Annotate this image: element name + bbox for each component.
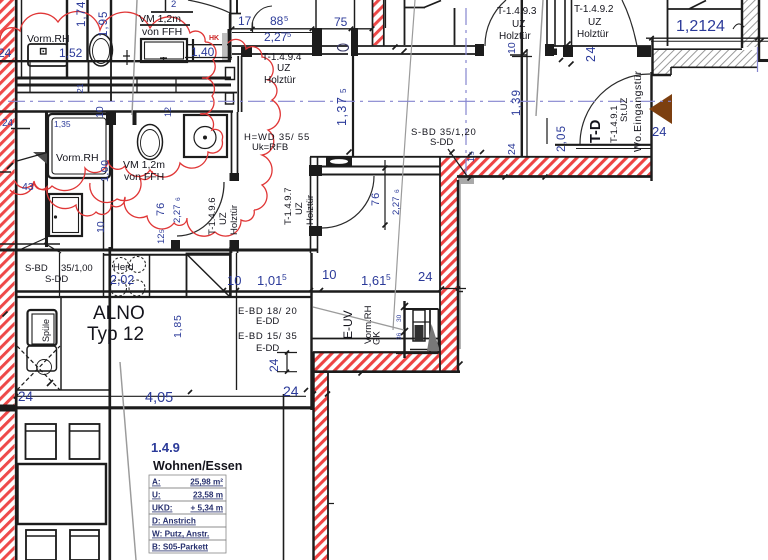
blue tick right <box>757 47 759 72</box>
niche line above washbasin <box>151 11 193 13</box>
wall line y55 left of x527 <box>510 54 527 56</box>
wall x230 kitchen right <box>229 247 231 297</box>
svg-text:24: 24 <box>283 383 299 399</box>
svg-text:T-1.4.9.4: T-1.4.9.4 <box>262 52 302 63</box>
door jamb block x637 <box>637 46 651 57</box>
svg-text:E-UV: E-UV <box>341 310 355 339</box>
pencil line E <box>536 0 543 116</box>
svg-text:24: 24 <box>0 46 12 60</box>
dim extension x527 <box>526 49 528 156</box>
wall corner block left <box>0 405 17 412</box>
svg-text:30: 30 <box>396 314 403 322</box>
squiggle after 1,2124 <box>733 24 744 29</box>
room 1,2124 wall x667 <box>667 0 669 46</box>
GK right edge <box>438 309 440 353</box>
svg-text:1,95: 1,95 <box>98 11 110 37</box>
duct line below shower <box>103 180 105 250</box>
svg-text:35/1,00: 35/1,00 <box>61 263 93 274</box>
dim extension x236 <box>236 253 238 390</box>
washbasin Vorm.RH top <box>28 44 67 66</box>
dim line 88-75 y28.8 <box>232 28 372 30</box>
svg-text:6: 6 <box>394 189 401 193</box>
entry wall line y148.5 <box>576 148 651 150</box>
wall x454 vertical <box>454 8 456 45</box>
existing gray hatched wall top right vertical <box>743 0 759 47</box>
dim line 1,40 lower edge <box>185 57 232 59</box>
svg-text:D: Anstrich: D: Anstrich <box>152 517 196 526</box>
svg-text:Uk=RFB: Uk=RFB <box>252 142 288 153</box>
wall x404 vertical <box>404 0 406 45</box>
svg-text:10: 10 <box>322 267 336 282</box>
door arc T-1.4.9.3 <box>485 0 506 46</box>
svg-text:ALNO: ALNO <box>93 303 145 324</box>
wall x193 right of washbasin niche <box>192 39 194 61</box>
counter edge x61 <box>60 297 62 390</box>
entry wall top line y144.8 <box>555 144 652 146</box>
washbasin VM room <box>141 39 187 62</box>
svg-text:S-DD: S-DD <box>430 137 453 148</box>
tick verticals in wall band area <box>29 62 31 93</box>
svg-text:E-BD 15/ 35: E-BD 15/ 35 <box>238 331 297 342</box>
svg-text:75: 75 <box>334 15 348 29</box>
dim ticks at red wall bottom <box>311 392 316 397</box>
revision cloud dip under Vorm.RH <box>90 171 152 203</box>
tick under washbasin <box>160 57 167 59</box>
blue axis horizontal <box>8 100 671 102</box>
dim extension x283 <box>283 394 285 560</box>
svg-text:10: 10 <box>95 221 107 233</box>
pencil line A <box>393 0 415 330</box>
svg-text:5: 5 <box>159 229 166 233</box>
svg-text:1,35: 1,35 <box>54 119 71 129</box>
svg-text:5: 5 <box>386 272 391 282</box>
hatched wall stub top corridor <box>373 0 384 45</box>
hatched new wall vertical center (x440) <box>440 157 457 371</box>
entry wall bottom black y176.5 <box>457 175 652 178</box>
stove burner circles <box>113 258 129 274</box>
svg-text:Holztür: Holztür <box>264 75 296 86</box>
chair top-right <box>70 424 100 459</box>
wall divider x87 <box>86 0 88 61</box>
diagonal tick corner 4,05 <box>47 380 53 386</box>
shower tray lower bath <box>48 114 110 178</box>
svg-text:23,58 m: 23,58 m <box>193 491 223 500</box>
svg-text:10: 10 <box>94 106 106 118</box>
gray shadow inner corner entry wall <box>458 177 474 184</box>
svg-text:UZ: UZ <box>588 17 601 28</box>
fridge tall unit with diagonal <box>187 254 231 298</box>
door jamb x475 <box>475 44 484 56</box>
svg-text:Holztür: Holztür <box>305 195 316 225</box>
gray strip edge x759 <box>758 0 760 62</box>
door jamb marks bath divider <box>230 173 240 181</box>
chair bottom-right <box>70 530 99 560</box>
svg-text:2,02: 2,02 <box>110 273 134 287</box>
svg-text:5: 5 <box>282 272 287 282</box>
svg-text:S-DD: S-DD <box>45 274 68 285</box>
door jamb bottom room 7 <box>309 226 322 236</box>
wall x521 corridor-entry <box>521 0 523 156</box>
svg-text:T-1.4.9.3: T-1.4.9.3 <box>497 6 537 17</box>
dim vertical 17 x252 <box>252 22 254 33</box>
svg-text:VM 1,2m: VM 1,2m <box>139 13 181 25</box>
door jamb block lower wall <box>171 240 180 249</box>
drain mark beside WC <box>126 50 128 65</box>
WC toilet top bathroom <box>90 34 113 66</box>
corridor wall top edge segments y45 <box>232 45 312 47</box>
diagonal mark bottom left bath <box>17 238 46 251</box>
counter divider x103 <box>103 253 105 297</box>
svg-text:T-1.4.9.2: T-1.4.9.2 <box>574 4 614 15</box>
dining table <box>18 464 107 524</box>
kitchen counter line y291 <box>16 290 440 292</box>
door arc T-1.4.9.2 <box>622 0 637 46</box>
wall line room divider x21 <box>21 0 23 77</box>
svg-text:Holztür: Holztür <box>499 31 531 42</box>
left edge ticks <box>7 163 13 169</box>
existing gray hatched wall notch <box>653 50 671 75</box>
wall divider x67 between Vorm.RH and WC <box>66 0 68 77</box>
dim extension line x547 <box>546 118 548 144</box>
svg-text:+ 5,34 m: + 5,34 m <box>190 504 223 513</box>
svg-text:25,98 m²: 25,98 m² <box>190 478 223 487</box>
svg-text:1,74: 1,74 <box>76 1 88 27</box>
svg-text:10: 10 <box>506 42 518 54</box>
svg-text:T-1.4.9.7: T-1.4.9.7 <box>283 188 294 226</box>
revision cloud upper bottom chain <box>10 140 222 195</box>
outer ticks <box>457 291 463 293</box>
svg-text:UZ: UZ <box>218 212 229 225</box>
kitchen counter top y255 <box>103 254 230 256</box>
svg-text:B: S05-Parkett: B: S05-Parkett <box>152 543 208 552</box>
terrace wall top edge y352 <box>313 351 440 353</box>
svg-text:12: 12 <box>156 233 167 244</box>
svg-text:5: 5 <box>469 151 476 155</box>
svg-text:Vorm.RH: Vorm.RH <box>56 152 99 164</box>
lower bath divider wall x112 <box>111 111 113 250</box>
svg-text:HK: HK <box>209 35 219 42</box>
brown entry direction triangle <box>649 94 672 124</box>
shaft bottom block <box>546 49 557 56</box>
svg-text:76: 76 <box>155 202 167 216</box>
svg-text:88: 88 <box>270 14 284 28</box>
bath block bottom wall y250 <box>0 243 60 245</box>
entry right wall x651 <box>650 72 652 181</box>
svg-text:24: 24 <box>506 143 518 155</box>
GK inner horizontal <box>413 321 430 323</box>
pencil line C leader <box>313 307 404 330</box>
wall top edge y156.8 full <box>310 156 651 158</box>
shaft wall lines x547-572 <box>546 0 548 46</box>
svg-text:GK: GK <box>372 331 383 345</box>
counter bottom edge y390 <box>17 389 111 391</box>
svg-text:10: 10 <box>227 273 241 288</box>
door jamb top room 7 <box>309 165 322 176</box>
hatched new wall horizontal bottom (terrace) <box>314 352 458 372</box>
revision cloud upper top chain <box>0 11 205 42</box>
chair bottom-left <box>26 530 56 560</box>
dim line 1,2124 y38 <box>646 37 768 39</box>
room outline top y7.5 <box>404 7 425 9</box>
WC toilet lower bath <box>138 125 163 160</box>
room info table <box>149 475 226 553</box>
svg-text:1.4.9: 1.4.9 <box>151 440 180 455</box>
kitchen right wall x312 <box>310 253 312 410</box>
wall pier x312 <box>312 28 322 56</box>
big door arc top room <box>188 0 230 13</box>
svg-text:UZ: UZ <box>512 19 525 30</box>
svg-text:W: Putz, Anstr.: W: Putz, Anstr. <box>152 530 209 539</box>
svg-text:1,2124: 1,2124 <box>676 18 725 35</box>
svg-text:A:: A: <box>152 478 161 487</box>
door leaf room 7 on wall <box>326 157 352 166</box>
svg-text:Wohnen/Essen: Wohnen/Essen <box>153 459 242 473</box>
svg-text:UZ: UZ <box>294 202 305 215</box>
svg-text:1,00: 1,00 <box>99 160 111 182</box>
svg-text:Wo.Eingangstür: Wo.Eingangstür <box>632 70 644 152</box>
svg-text:von FFH: von FFH <box>142 26 182 38</box>
gray shadow left of jamb <box>222 33 227 60</box>
wall stub above pier x315 <box>315 0 317 28</box>
wall x238-241 below corridor <box>237 56 239 112</box>
svg-text:12: 12 <box>163 107 173 117</box>
door arc top small T-1.4.9.4 <box>252 6 272 28</box>
terrace wall bottom edge y371 <box>313 370 460 373</box>
svg-text:36: 36 <box>396 332 403 340</box>
GK cross ticks <box>401 303 408 310</box>
wall piece right edge y60 <box>757 59 768 62</box>
svg-text:U:: U: <box>152 491 161 500</box>
diagonal connector S-BD corner <box>44 243 61 253</box>
wall x231-238 bath divider lower <box>231 243 233 253</box>
svg-text:5: 5 <box>287 30 291 39</box>
diagonal corner 1,2124 room <box>689 1 706 10</box>
counter divider x59 S-BD zone <box>59 253 61 297</box>
svg-text:21: 21 <box>75 83 85 93</box>
small blue ellipse symbol on corridor wall <box>338 44 349 51</box>
chair top-left <box>26 424 57 459</box>
gray strip edge x742 <box>741 0 743 48</box>
pencil line D <box>132 0 137 115</box>
svg-text:2,05: 2,05 <box>556 125 568 152</box>
svg-text:24: 24 <box>418 269 432 284</box>
kitchen counter line y297 <box>16 296 312 298</box>
GK installation left vertical <box>403 301 405 358</box>
wall band lines y166 y174 corridor south <box>318 166 440 168</box>
GK dark valve <box>415 325 424 341</box>
revision cloud label bump chain <box>228 39 280 210</box>
svg-text:1,39: 1,39 <box>511 89 523 116</box>
entry door arc T-D <box>580 74 650 144</box>
dim line second y32.5 <box>232 32 312 34</box>
GK inner rect <box>413 310 425 341</box>
existing gray hatched wall band right <box>653 50 758 68</box>
tick on x331 <box>328 503 334 505</box>
living room top wall y407 <box>0 406 313 409</box>
svg-text:S-BD: S-BD <box>25 263 48 274</box>
dim line y396 <box>16 395 306 397</box>
svg-text:24: 24 <box>652 124 666 139</box>
dim ticks kitchen row <box>222 288 226 292</box>
svg-text:1,01: 1,01 <box>257 273 282 288</box>
wall segment x230 upper <box>229 14 231 29</box>
underline VM 1,2m label <box>140 24 190 26</box>
wall divider x111 <box>110 0 112 61</box>
svg-text:76: 76 <box>370 192 382 206</box>
svg-text:E-DD: E-DD <box>256 343 279 354</box>
washing machine <box>184 115 227 157</box>
outer edge x458 <box>457 180 459 372</box>
wall left edge x313 <box>312 352 314 560</box>
svg-text:von FFH: von FFH <box>124 171 164 183</box>
cross tick at corridor wall x523 <box>512 56 532 58</box>
GK gray triangle <box>427 324 440 351</box>
svg-text:43: 43 <box>22 181 34 193</box>
dim extension x385 with ticks <box>384 160 386 230</box>
svg-text:Spüle: Spüle <box>41 319 51 342</box>
wall x231-238 bath divider upper <box>231 112 233 178</box>
dim ticks below shaft <box>523 50 528 55</box>
dim tick above door leaf <box>347 150 352 155</box>
wall line under top fixtures y61 <box>0 60 231 62</box>
svg-text:Holztür: Holztür <box>577 29 609 40</box>
dim arrow ticks on wall x391-406 <box>393 45 398 50</box>
svg-text:24: 24 <box>267 358 281 372</box>
wall line x385 top <box>385 0 387 28</box>
svg-text:UZ: UZ <box>277 63 290 74</box>
GK box bottom lines <box>410 349 439 351</box>
svg-text:T-D: T-D <box>588 120 604 143</box>
duct shaft boxes in wall <box>226 68 235 80</box>
door jamb x545 <box>545 44 554 56</box>
gray band outline top y49 <box>652 48 742 50</box>
dishwasher with dashed cross <box>27 346 57 371</box>
GK inner vertical x430 <box>429 309 431 353</box>
hatched new wall vertical bottom (x313) <box>314 371 328 560</box>
hatched new wall horizontal top (entry) <box>457 157 651 176</box>
wall stub lines x229-238 top <box>230 0 232 29</box>
wall x310-317 room T-1.4.9.7 left <box>310 157 312 253</box>
GK box top line <box>404 308 439 310</box>
E-UV zone line y338 <box>312 338 440 340</box>
svg-text:17: 17 <box>238 14 252 28</box>
wall stub left of WC <box>133 111 137 125</box>
door jamb block x563 <box>563 45 573 57</box>
gray shadow along center wall <box>458 184 462 349</box>
svg-text:Typ 12: Typ 12 <box>87 324 144 345</box>
wall pier x351 <box>351 28 358 56</box>
gray band bottom y67 <box>671 66 758 68</box>
black edge of center red wall x440 <box>439 157 441 372</box>
door arc room T-1.4.9.7 <box>322 176 374 228</box>
diagonal corner top <box>424 1 441 8</box>
room 1,2124 top line y9 <box>667 8 742 10</box>
gray band left edge x652 <box>651 37 653 75</box>
revision cloud right descent <box>200 42 223 140</box>
corridor wall bottom edge y54 <box>232 53 312 55</box>
svg-text:2,27: 2,27 <box>264 30 288 44</box>
niche top line right of basin <box>187 44 231 46</box>
counter divider x149 <box>149 255 151 297</box>
svg-text:Herd: Herd <box>113 262 134 273</box>
blue axis vertical <box>465 8 467 178</box>
svg-text:1,37: 1,37 <box>335 96 349 126</box>
pencil line B <box>120 362 136 560</box>
ticks near x452-482 on red wall top <box>450 150 455 155</box>
svg-text:2,27: 2,27 <box>172 205 183 224</box>
door arc room T-1.4.9.6 <box>177 182 224 236</box>
kitchen wall x109 long <box>108 247 111 560</box>
svg-text:Vorm.RH: Vorm.RH <box>27 33 70 45</box>
svg-text:5: 5 <box>284 14 288 23</box>
terrace wall inner corner step <box>327 372 329 560</box>
hatched wall left exterior band <box>0 0 15 560</box>
svg-text:4,05: 4,05 <box>145 390 173 406</box>
svg-text:1,85: 1,85 <box>172 314 184 338</box>
svg-text:5: 5 <box>339 88 348 93</box>
wall band line y78 <box>17 77 231 80</box>
tall cabinet lower left <box>49 194 82 236</box>
svg-text:1,61: 1,61 <box>361 273 386 288</box>
svg-text:2,27: 2,27 <box>391 197 402 216</box>
svg-text:Holztür: Holztür <box>229 205 240 235</box>
svg-text:T-1.4.9.6: T-1.4.9.6 <box>207 198 218 236</box>
gray band notch bottom <box>652 74 671 76</box>
svg-text:St.UZ: St.UZ <box>619 98 630 122</box>
svg-text:E-DD: E-DD <box>256 316 279 327</box>
dim line right of red wall y288 <box>440 288 466 290</box>
wall stub above pier x354 <box>354 0 356 28</box>
wall band line y85 <box>17 84 231 87</box>
svg-text:1: 1 <box>466 157 476 162</box>
wall edge line left band <box>15 0 18 560</box>
door leaf gray wedge lower bath <box>33 152 47 164</box>
vertical dim 24 small pair <box>286 352 288 372</box>
corridor left wall x353 <box>352 56 354 156</box>
svg-text:VM 1,2m: VM 1,2m <box>123 159 165 171</box>
svg-text:1,40: 1,40 <box>191 45 215 59</box>
svg-text:6: 6 <box>175 197 182 201</box>
lower bath left wall x46 <box>45 112 48 247</box>
svg-text:24: 24 <box>18 389 34 404</box>
svg-text:UKD:: UKD: <box>152 504 172 513</box>
svg-text:24: 24 <box>2 118 14 129</box>
wall stub black shower corner <box>106 111 116 125</box>
E-UV zone line y352 <box>312 352 440 354</box>
wall line y92 <box>15 92 237 94</box>
svg-text:24: 24 <box>584 45 598 62</box>
revision cloud lower bottom chain <box>15 181 254 236</box>
soap square <box>41 49 47 55</box>
corridor left jamb assembly <box>228 29 232 60</box>
svg-text:2: 2 <box>171 0 176 10</box>
sink Spuele <box>28 310 57 346</box>
svg-text:1,52: 1,52 <box>59 46 83 60</box>
lower bath top wall y111 <box>0 110 233 112</box>
